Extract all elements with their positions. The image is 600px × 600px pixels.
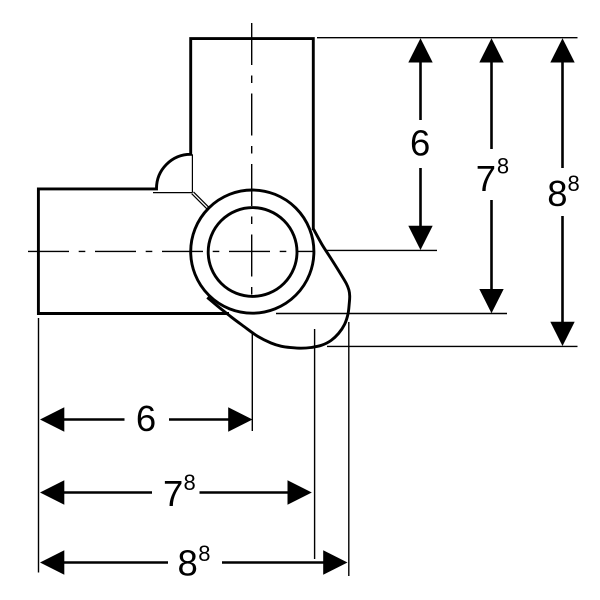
- dimension 6 horizontal arrow left: [40, 407, 64, 431]
- dimension 7.8 horizontal line segments: [64, 491, 153, 494]
- dimension 8.8 vertical line segments: [561, 62, 564, 169]
- fillet web thin horizontal line: [153, 192, 192, 194]
- svg-text:6: 6: [410, 123, 430, 164]
- svg-text:8: 8: [568, 171, 580, 196]
- extension line branch right (x=348.8): [348, 322, 350, 576]
- dimension 7.8 horizontal arrow left: [40, 480, 64, 504]
- dimension 8.8 vertical arrow down: [550, 322, 574, 346]
- socket inner circle: [208, 208, 297, 297]
- dimension 8.8 horizontal arrow right: [323, 550, 347, 574]
- svg-text:8: 8: [497, 153, 509, 178]
- svg-text:8: 8: [178, 543, 198, 584]
- svg-text:7: 7: [476, 158, 496, 199]
- dimension 7.8 vertical arrow up: [479, 38, 503, 62]
- dimension 7.8 vertical arrow down: [479, 289, 503, 313]
- extension line center height (y=250.4): [325, 249, 437, 251]
- svg-text:8: 8: [198, 541, 210, 566]
- vertical centerline (dash-dot): [251, 23, 253, 296]
- dimension 8.8 horizontal line segments: [64, 561, 169, 564]
- weld seam double diagonal line A: [194, 192, 210, 208]
- extension line left (x=38.5): [38, 318, 40, 573]
- fillet web thin vertical line: [191, 154, 193, 192]
- extension line pipe bottom (y=313.5): [276, 313, 507, 315]
- extension line top (y=37.7): [317, 37, 578, 39]
- dimension 8.8 vertical arrow up: [550, 38, 574, 62]
- pipe body outline (vertical + horizontal pipe with fillet arc): [38, 39, 313, 314]
- dimension 6 horizontal line segments: [64, 418, 125, 421]
- dimension 8.8 horizontal arrow left: [40, 550, 64, 574]
- svg-text:7: 7: [163, 473, 183, 514]
- weld seam double diagonal line B: [192, 194, 208, 210]
- dimension 6 vertical line segments: [419, 62, 422, 121]
- horizontal centerline (dash-dot): [28, 250, 313, 252]
- svg-text:8: 8: [547, 173, 567, 214]
- extension line branch bottom (y=346.4): [327, 345, 578, 347]
- svg-text:6: 6: [136, 398, 156, 439]
- extension line pipe right edge (x=314.6): [314, 329, 316, 559]
- extension line center (x=252.3): [251, 333, 253, 432]
- dimension 7.8 horizontal arrow right: [288, 480, 312, 504]
- 45-degree branch outline: [207, 229, 349, 349]
- dimension 6 vertical arrow down: [408, 226, 432, 250]
- dimension 6 vertical arrow up: [408, 38, 432, 62]
- dimension 6 horizontal arrow right: [228, 407, 252, 431]
- dimension 7.8 vertical line segments: [490, 62, 493, 150]
- socket outer circle: [191, 190, 314, 313]
- svg-text:8: 8: [184, 470, 196, 495]
